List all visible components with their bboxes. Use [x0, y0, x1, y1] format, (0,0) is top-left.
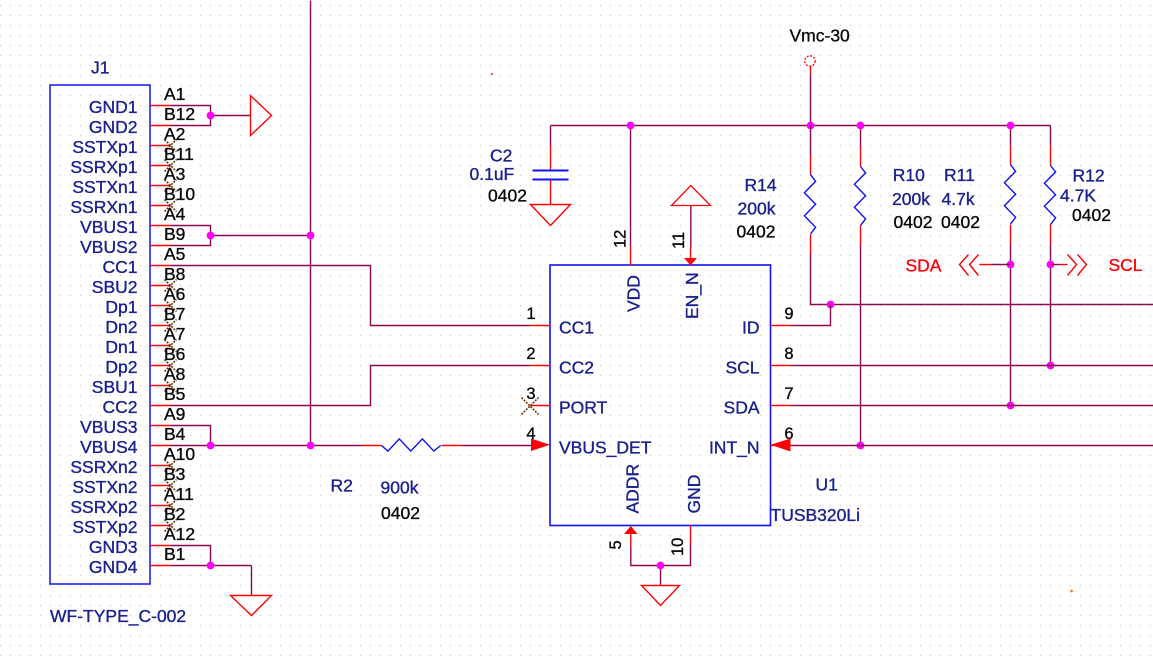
svg-text:VBUS4: VBUS4 [80, 437, 138, 457]
svg-text:0402: 0402 [488, 186, 527, 206]
svg-text:CC2: CC2 [559, 358, 594, 378]
svg-text:3: 3 [526, 385, 535, 403]
svg-text:B12: B12 [164, 104, 195, 124]
svg-text:0402: 0402 [941, 212, 980, 232]
svg-text:VBUS2: VBUS2 [80, 237, 137, 257]
svg-text:SSTXp1: SSTXp1 [72, 137, 137, 157]
svg-text:200k: 200k [892, 189, 930, 209]
svg-text:7: 7 [784, 385, 793, 403]
svg-text:8: 8 [784, 345, 793, 363]
svg-text:SSTXp2: SSTXp2 [72, 517, 137, 537]
svg-text:A12: A12 [164, 524, 195, 544]
svg-text:SBU2: SBU2 [92, 277, 138, 297]
svg-text:SSRXp1: SSRXp1 [70, 157, 137, 177]
svg-text:SSTXn1: SSTXn1 [72, 177, 137, 197]
svg-text:GND1: GND1 [89, 97, 138, 117]
svg-text:1: 1 [526, 305, 535, 323]
svg-text:GND2: GND2 [89, 117, 138, 137]
svg-text:B4: B4 [164, 424, 186, 444]
svg-text:SSRXp2: SSRXp2 [70, 497, 137, 517]
svg-text:Vmc-30: Vmc-30 [790, 26, 851, 46]
svg-text:PORT: PORT [559, 398, 608, 418]
svg-text:900k: 900k [381, 478, 419, 498]
svg-text:CC1: CC1 [559, 318, 594, 338]
svg-text:EN_N: EN_N [682, 272, 703, 319]
svg-text:A11: A11 [164, 484, 194, 504]
svg-text:Dn2: Dn2 [105, 317, 137, 337]
svg-text:SDA: SDA [724, 398, 760, 418]
svg-text:0402: 0402 [737, 222, 776, 242]
svg-text:B11: B11 [164, 144, 194, 164]
svg-text:R2: R2 [331, 476, 353, 496]
svg-text:C2: C2 [490, 146, 512, 166]
svg-text:0.1uF: 0.1uF [470, 164, 515, 184]
svg-text:R12: R12 [1073, 166, 1105, 186]
svg-text:VBUS1: VBUS1 [80, 217, 137, 237]
svg-text:4.7K: 4.7K [1060, 186, 1096, 206]
svg-text:INT_N: INT_N [709, 438, 760, 459]
svg-text:SSRXn1: SSRXn1 [70, 197, 137, 217]
svg-text:GND3: GND3 [89, 537, 138, 557]
svg-text:VBUS_DET: VBUS_DET [559, 438, 652, 459]
svg-text:A10: A10 [164, 444, 195, 464]
svg-text:5: 5 [607, 540, 625, 549]
svg-text:B10: B10 [164, 184, 195, 204]
svg-text:TUSB320Li: TUSB320Li [771, 505, 861, 525]
svg-text:SDA: SDA [906, 256, 942, 276]
svg-text:200k: 200k [738, 199, 776, 219]
svg-text:SSTXn2: SSTXn2 [72, 477, 137, 497]
svg-text:R10: R10 [893, 165, 925, 185]
svg-text:SSRXn2: SSRXn2 [70, 457, 137, 477]
svg-text:B9: B9 [164, 224, 185, 244]
svg-text:0402: 0402 [894, 212, 933, 232]
svg-text:GND: GND [684, 475, 704, 514]
svg-text:B5: B5 [164, 384, 185, 404]
svg-text:2: 2 [526, 345, 535, 363]
svg-text:R11: R11 [944, 165, 975, 185]
svg-text:WF-TYPE_C-002: WF-TYPE_C-002 [50, 606, 186, 627]
svg-text:J1: J1 [91, 58, 109, 78]
svg-text:4: 4 [526, 425, 535, 443]
svg-text:GND4: GND4 [89, 557, 138, 577]
svg-text:SCL: SCL [1109, 255, 1143, 275]
svg-text:A5: A5 [164, 244, 185, 264]
svg-text:0402: 0402 [1072, 205, 1111, 225]
svg-text:11: 11 [670, 232, 688, 249]
svg-text:ID: ID [742, 318, 760, 338]
svg-text:ADDR: ADDR [623, 464, 643, 514]
svg-text:B1: B1 [164, 544, 185, 564]
svg-text:VBUS3: VBUS3 [80, 417, 137, 437]
svg-text:10: 10 [669, 538, 687, 556]
svg-text:VDD: VDD [624, 275, 644, 312]
svg-text:A9: A9 [164, 404, 185, 424]
svg-text:4.7k: 4.7k [942, 189, 975, 209]
svg-text:12: 12 [612, 230, 630, 248]
svg-text:SBU1: SBU1 [92, 377, 138, 397]
svg-text:SCL: SCL [725, 358, 759, 378]
svg-text:9: 9 [784, 305, 793, 323]
svg-text:U1: U1 [816, 475, 838, 495]
svg-text:0402: 0402 [381, 503, 420, 523]
svg-text:CC1: CC1 [102, 257, 137, 277]
svg-text:A1: A1 [164, 84, 185, 104]
svg-text:Dn1: Dn1 [105, 337, 137, 357]
svg-text:R14: R14 [745, 175, 777, 195]
svg-text:A4: A4 [164, 204, 186, 224]
svg-text:CC2: CC2 [102, 397, 137, 417]
svg-text:Dp2: Dp2 [105, 357, 137, 377]
svg-text:Dp1: Dp1 [105, 297, 137, 317]
